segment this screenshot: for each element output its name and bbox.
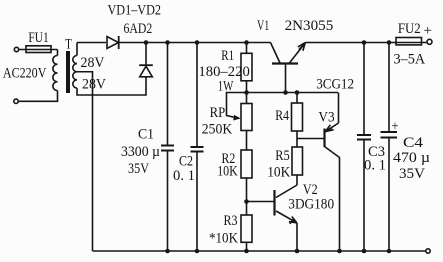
svg-text:35V: 35V [128, 161, 149, 177]
svg-text:6AD2: 6AD2 [124, 21, 153, 37]
svg-text:AC220V: AC220V [3, 66, 47, 82]
svg-text:R4: R4 [275, 108, 289, 124]
transistor V1 [272, 62, 298, 64]
node R1-RP junction [244, 90, 249, 95]
svg-text:10K: 10K [217, 164, 238, 180]
svg-text:V1: V1 [257, 18, 269, 34]
capacitor C3 [363, 43, 365, 135]
svg-text:10K: 10K [267, 165, 290, 181]
node VD2-rail [144, 40, 149, 45]
svg-text:+: + [392, 119, 399, 135]
capacitor C1 [167, 43, 169, 146]
wire VD2 to rail [145, 43, 147, 66]
node C2-rail [195, 40, 200, 45]
svg-text:FU1: FU1 [28, 30, 48, 46]
transformer core [66, 51, 70, 93]
potentiometer RP [241, 104, 252, 131]
transformer T secondary winding 28V lower [73, 72, 77, 88]
node C3 top [362, 40, 367, 45]
svg-text:R3: R3 [224, 213, 238, 229]
resistor R1 [246, 43, 248, 54]
output terminal plus [427, 39, 432, 44]
node C2 bottom [195, 249, 200, 254]
svg-text:C1: C1 [138, 127, 154, 143]
node C4 top [387, 40, 392, 45]
transistor V2 [247, 201, 275, 203]
svg-text:250K: 250K [202, 122, 233, 138]
svg-text:RP: RP [210, 105, 226, 121]
node V3 collector bottom [337, 249, 342, 254]
wire secondary top to rail [76, 43, 78, 56]
svg-text:1W: 1W [218, 79, 234, 95]
diode VD2 [140, 66, 153, 77]
svg-text:R1: R1 [221, 48, 234, 64]
fuse FU1 [26, 46, 51, 53]
svg-text:3DG180: 3DG180 [288, 197, 334, 213]
svg-text:3CG12: 3CG12 [316, 77, 354, 93]
resistor R5 [292, 147, 303, 175]
svg-text:470 µ: 470 µ [393, 150, 430, 166]
svg-text:VD1–VD2: VD1–VD2 [108, 3, 162, 19]
node R3 bottom [244, 249, 249, 254]
wire centre tap [77, 72, 93, 251]
wire top rail [120, 42, 271, 44]
capacitor C2 [196, 43, 198, 147]
output terminal minus [426, 249, 430, 253]
fuse FU2 [396, 38, 422, 45]
transformer T secondary winding 28V upper [73, 56, 77, 72]
wire fuse to primary [57, 50, 59, 56]
capacitor C4 [388, 43, 390, 132]
svg-text:FU2: FU2 [398, 21, 421, 37]
node C3 bottom [362, 249, 367, 254]
wire bottom rail [93, 250, 426, 252]
resistor R4 [296, 93, 298, 104]
svg-text:C4: C4 [403, 135, 424, 151]
wire base bus [247, 92, 339, 94]
wire rail to VD1 [77, 42, 106, 44]
node R2-R3 junction [244, 199, 249, 204]
node C1 bottom [165, 249, 170, 254]
input terminal bottom [14, 99, 18, 103]
transformer T primary winding [53, 55, 58, 90]
resistor R2 [241, 150, 252, 178]
node C1-rail [165, 40, 170, 45]
wire secondary bottom to VD2 [77, 77, 146, 95]
node R4 top [295, 90, 300, 95]
svg-text:+: + [424, 23, 433, 39]
svg-text:V3: V3 [318, 110, 334, 126]
input terminal top [14, 47, 18, 51]
svg-text:35V: 35V [399, 166, 425, 182]
diode VD1 [107, 37, 119, 49]
svg-text:28V: 28V [82, 77, 106, 93]
RP wiper wire [227, 93, 247, 118]
svg-text:0. 1: 0. 1 [173, 168, 195, 184]
wire primary bottom to terminal [18, 91, 57, 102]
svg-text:R5: R5 [275, 148, 290, 164]
resistor R3 [241, 215, 252, 242]
node R1-rail [244, 40, 249, 45]
node V1 base [283, 90, 288, 95]
svg-text:*10K: *10K [209, 231, 238, 247]
wire V3 base [297, 138, 325, 140]
svg-text:2N3055: 2N3055 [285, 18, 334, 34]
node V2 emitter bottom [295, 249, 300, 254]
svg-text:3300 µ: 3300 µ [121, 144, 160, 160]
svg-text:T: T [65, 37, 72, 53]
wire input top to fuse [19, 49, 58, 51]
node C4 bottom [387, 249, 392, 254]
svg-text:0. 1: 0. 1 [364, 158, 386, 174]
svg-text:3–5A: 3–5A [394, 52, 426, 68]
wire output rail [306, 42, 428, 44]
svg-text:28V: 28V [81, 55, 105, 71]
transistor V3 [323, 129, 325, 148]
